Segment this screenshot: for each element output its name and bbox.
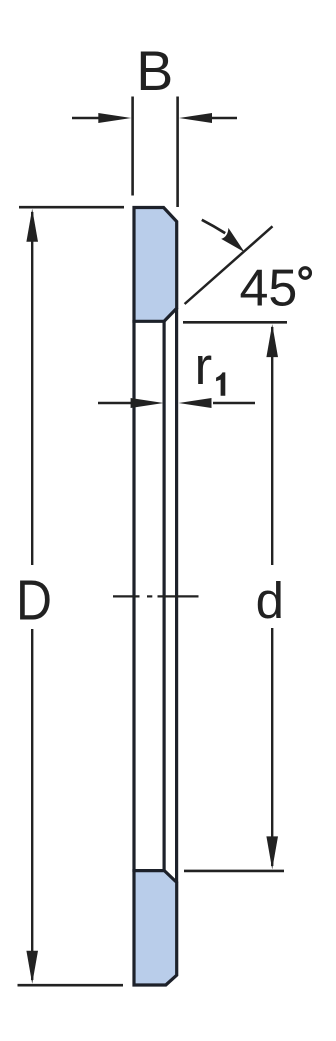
washer top section (cross-section, blue): [134, 208, 177, 322]
d extension line top (also r1 reference): [183, 321, 287, 324]
B extension line left: [131, 97, 134, 196]
d extension line bottom: [184, 870, 284, 873]
svg-text:D: D: [16, 570, 52, 633]
D extension line bottom: [18, 984, 124, 987]
d dimension line with arrows: [266, 324, 278, 869]
svg-text:d: d: [256, 572, 284, 629]
wire right face line (through bore region): [175, 308, 178, 882]
svg-text:r: r: [195, 337, 213, 396]
svg-text:45: 45: [240, 260, 298, 318]
B extension line right: [176, 97, 179, 208]
wire bore edge line (middle vertical): [163, 321, 166, 870]
D extension line top: [19, 206, 124, 209]
45 degree chamfer line (diagonal): [185, 226, 273, 304]
r1 arrow right: [179, 398, 256, 408]
r1 arrow left: [98, 398, 164, 408]
centerline (dash-dot axis mark): [113, 595, 199, 597]
washer bottom section (cross-section, blue): [134, 871, 177, 985]
B arrow left: [72, 113, 131, 123]
svg-text:B: B: [136, 40, 173, 102]
45 degree leader arrow: [202, 220, 245, 252]
wire left face line (through bore region): [132, 320, 135, 872]
D dimension line with arrows: [26, 209, 38, 984]
B arrow right: [179, 113, 237, 123]
